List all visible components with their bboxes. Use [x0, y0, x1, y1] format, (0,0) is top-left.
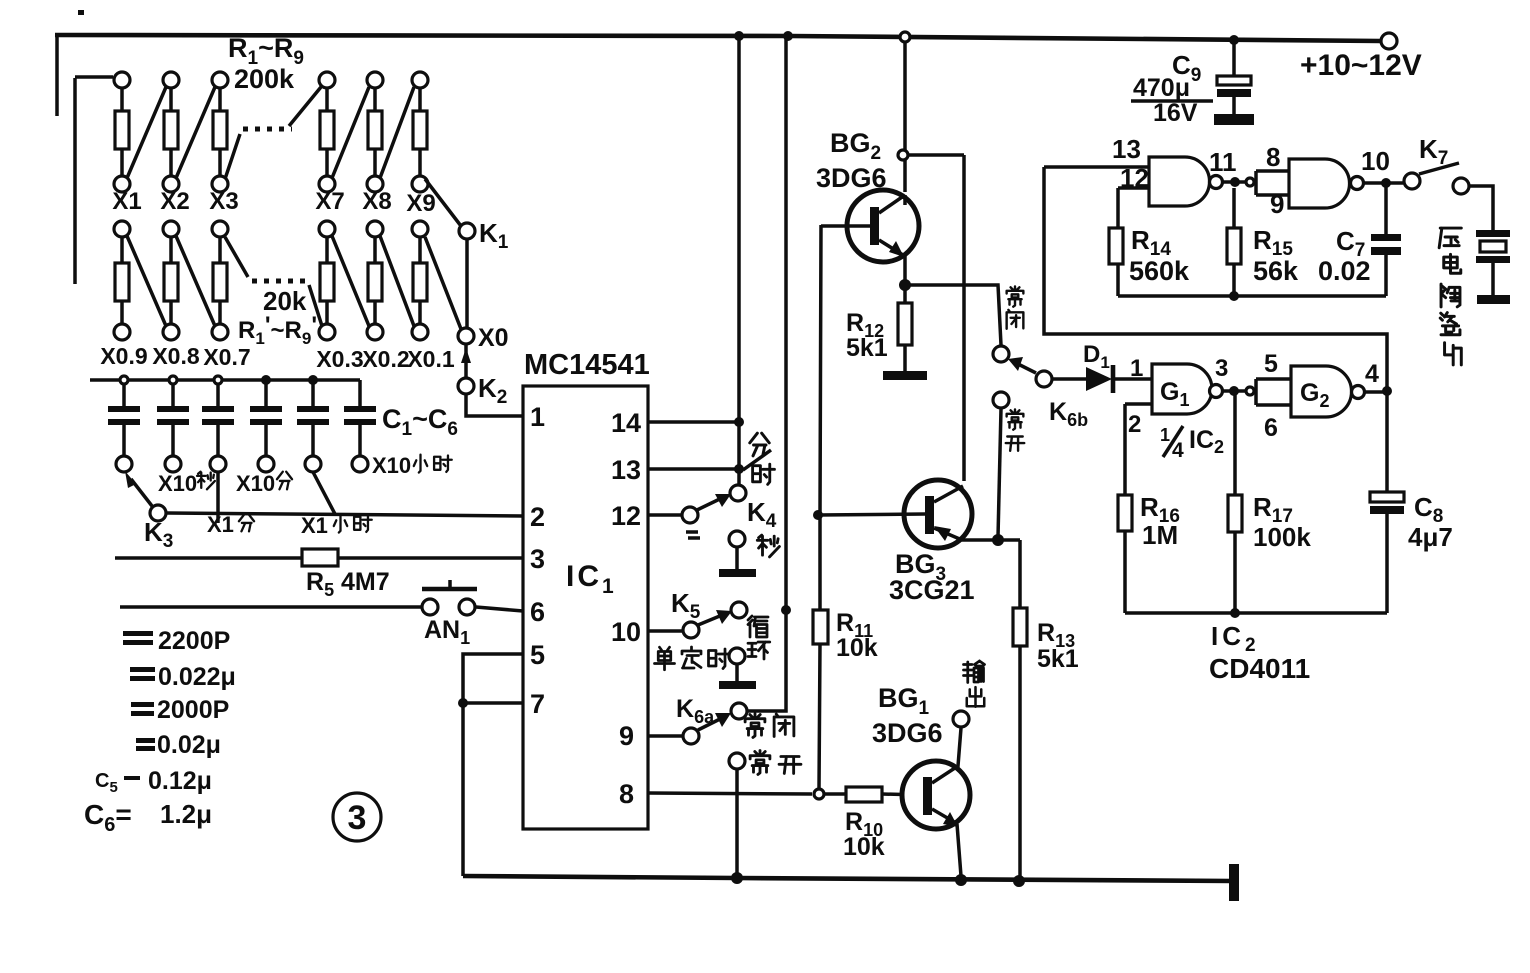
svg-text:K6b: K6b: [1049, 398, 1088, 430]
svg-text:2000P: 2000P: [157, 696, 229, 724]
svg-text:7: 7: [530, 689, 545, 719]
svg-text:X3: X3: [209, 188, 238, 215]
svg-text:CD4011: CD4011: [1209, 653, 1310, 684]
svg-text:10k: 10k: [843, 833, 885, 861]
svg-text:C6=: C6=: [84, 799, 132, 836]
svg-text:2: 2: [530, 502, 545, 532]
svg-text:100k: 100k: [1253, 522, 1311, 552]
svg-text:4: 4: [1365, 360, 1379, 388]
svg-text:X2: X2: [160, 188, 189, 215]
svg-text:8: 8: [1266, 142, 1280, 172]
svg-text:5: 5: [530, 640, 545, 670]
svg-text:K1: K1: [479, 218, 509, 253]
svg-text:0.02μ: 0.02μ: [157, 731, 221, 759]
svg-text:0.02: 0.02: [1318, 256, 1371, 286]
svg-text:12: 12: [1120, 163, 1149, 193]
svg-text:IC2: IC2: [1211, 621, 1260, 656]
svg-text:5k1: 5k1: [846, 334, 888, 362]
svg-text:AN1: AN1: [424, 616, 470, 648]
svg-text:3DG6: 3DG6: [816, 163, 887, 193]
svg-text:13: 13: [1112, 134, 1141, 164]
svg-text:X10: X10: [158, 471, 197, 496]
svg-text:X10: X10: [236, 471, 275, 496]
svg-text:X1: X1: [207, 512, 234, 537]
svg-text:5: 5: [1264, 350, 1278, 378]
svg-text:X9: X9: [406, 190, 435, 217]
svg-text:10k: 10k: [836, 634, 878, 662]
svg-text:R15: R15: [1253, 225, 1293, 260]
svg-text:R5 4M7: R5 4M7: [306, 568, 390, 600]
svg-text:X0.9: X0.9: [100, 343, 147, 369]
svg-text:2200P: 2200P: [158, 627, 230, 655]
svg-text:K2: K2: [478, 373, 507, 408]
svg-text:16V: 16V: [1153, 99, 1198, 127]
svg-text:X0.2: X0.2: [362, 346, 409, 372]
svg-text:3: 3: [530, 544, 545, 574]
svg-text:3: 3: [348, 799, 367, 837]
svg-text:10: 10: [611, 617, 641, 647]
svg-text:0.022μ: 0.022μ: [158, 663, 236, 691]
svg-text:R14: R14: [1131, 225, 1171, 260]
svg-text:K5: K5: [671, 588, 701, 623]
svg-text:13: 13: [611, 455, 641, 485]
svg-text:1: 1: [1160, 425, 1170, 445]
svg-text:K7: K7: [1419, 134, 1448, 169]
svg-text:1.2μ: 1.2μ: [160, 799, 212, 829]
svg-text:1: 1: [1130, 355, 1143, 382]
svg-text:200k: 200k: [234, 64, 295, 94]
svg-text:X0.8: X0.8: [152, 343, 200, 369]
svg-text:8: 8: [619, 779, 634, 809]
svg-text:11: 11: [1209, 147, 1237, 177]
svg-text:C5: C5: [95, 770, 118, 796]
svg-text:2: 2: [1128, 411, 1141, 438]
svg-text:1: 1: [530, 402, 545, 432]
svg-text:3DG6: 3DG6: [872, 718, 943, 748]
svg-text:R1'~R9': R1'~R9': [238, 312, 317, 348]
svg-text:1M: 1M: [1142, 520, 1178, 550]
svg-text:X1: X1: [301, 513, 328, 538]
svg-text:560k: 560k: [1129, 256, 1190, 286]
svg-text:IC2: IC2: [1189, 426, 1224, 457]
svg-text:5k1: 5k1: [1037, 645, 1079, 673]
svg-text:K3: K3: [144, 517, 173, 552]
svg-text:4: 4: [1172, 439, 1184, 462]
svg-text:X7: X7: [315, 188, 344, 215]
svg-text:K4: K4: [747, 497, 777, 532]
svg-text:4μ7: 4μ7: [1408, 522, 1453, 552]
svg-text:6: 6: [1264, 414, 1278, 442]
svg-text:3CG21: 3CG21: [889, 575, 975, 605]
svg-text:BG1: BG1: [878, 683, 930, 719]
svg-text:14: 14: [611, 408, 641, 438]
svg-text:3: 3: [1215, 355, 1228, 382]
svg-text:X0.3: X0.3: [316, 346, 363, 372]
svg-text:K6a: K6a: [676, 695, 715, 727]
svg-text:6: 6: [530, 597, 545, 627]
svg-text:+10~12V: +10~12V: [1300, 49, 1422, 82]
svg-text:MC14541: MC14541: [524, 349, 650, 381]
svg-text:D1: D1: [1083, 341, 1110, 372]
svg-text:0.12μ: 0.12μ: [148, 767, 212, 795]
svg-text:9: 9: [619, 721, 634, 751]
svg-text:BG2: BG2: [830, 128, 881, 164]
svg-text:X8: X8: [362, 188, 391, 215]
svg-text:X10: X10: [372, 453, 411, 478]
svg-text:9: 9: [1270, 189, 1284, 219]
svg-text:X0.7: X0.7: [203, 344, 250, 370]
svg-text:X0.1: X0.1: [407, 346, 455, 372]
svg-text:C1~C6: C1~C6: [382, 404, 458, 440]
svg-text:56k: 56k: [1253, 256, 1299, 286]
svg-text:470μ: 470μ: [1133, 74, 1190, 102]
svg-text:12: 12: [611, 501, 641, 531]
svg-text:X1: X1: [112, 188, 141, 215]
svg-text:X0: X0: [478, 324, 509, 352]
svg-text:10: 10: [1361, 146, 1390, 176]
